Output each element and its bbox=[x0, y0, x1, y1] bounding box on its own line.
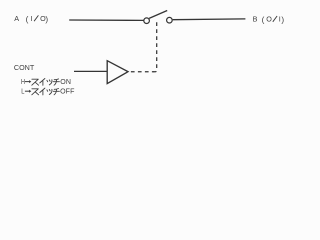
annotation line 1: H -> switch ON bbox=[21, 78, 71, 86]
katakana SU bbox=[32, 89, 39, 95]
switch SW1 contact right (throw) bbox=[167, 17, 173, 23]
switch SW1 contact left (pole) bbox=[144, 18, 150, 24]
svg-text:I: I bbox=[31, 14, 33, 23]
wire: control dashed link, horizontal run from buffer tip bbox=[131, 71, 154, 73]
svg-text:ON: ON bbox=[60, 79, 71, 86]
svg-text:OFF: OFF bbox=[60, 88, 75, 95]
op-amp U1 buffer (control driver) triangle bbox=[107, 61, 128, 84]
svg-text:B: B bbox=[253, 14, 258, 23]
katakana CHI bbox=[53, 89, 59, 95]
katakana small TSU bbox=[47, 89, 52, 94]
svg-text:(: ( bbox=[262, 15, 265, 24]
svg-text:CONT: CONT bbox=[14, 63, 35, 72]
node B label "B (O/I)" bbox=[253, 14, 285, 24]
katakana I bbox=[40, 79, 45, 86]
svg-text:): ) bbox=[281, 15, 284, 24]
wire CONT bbox=[74, 70, 107, 72]
svg-text:L: L bbox=[21, 88, 25, 96]
katakana I bbox=[40, 88, 45, 95]
svg-text:(: ( bbox=[26, 15, 29, 24]
svg-text:A: A bbox=[14, 14, 19, 23]
node A label "A (I/O)" bbox=[14, 14, 48, 24]
svg-text:): ) bbox=[45, 15, 48, 24]
wire B bbox=[173, 18, 246, 21]
wire: control dashed link, vertical run up to switch (with corner) bbox=[153, 22, 157, 72]
katakana CHI bbox=[53, 79, 59, 85]
switch SW1 arm (open) bbox=[149, 11, 167, 19]
katakana small TSU bbox=[47, 80, 52, 85]
svg-text:H: H bbox=[21, 78, 25, 86]
svg-text:O: O bbox=[266, 14, 272, 23]
wire A bbox=[69, 19, 144, 21]
annotation line 2: L -> switch OFF bbox=[21, 88, 75, 96]
katakana SU bbox=[32, 79, 39, 85]
